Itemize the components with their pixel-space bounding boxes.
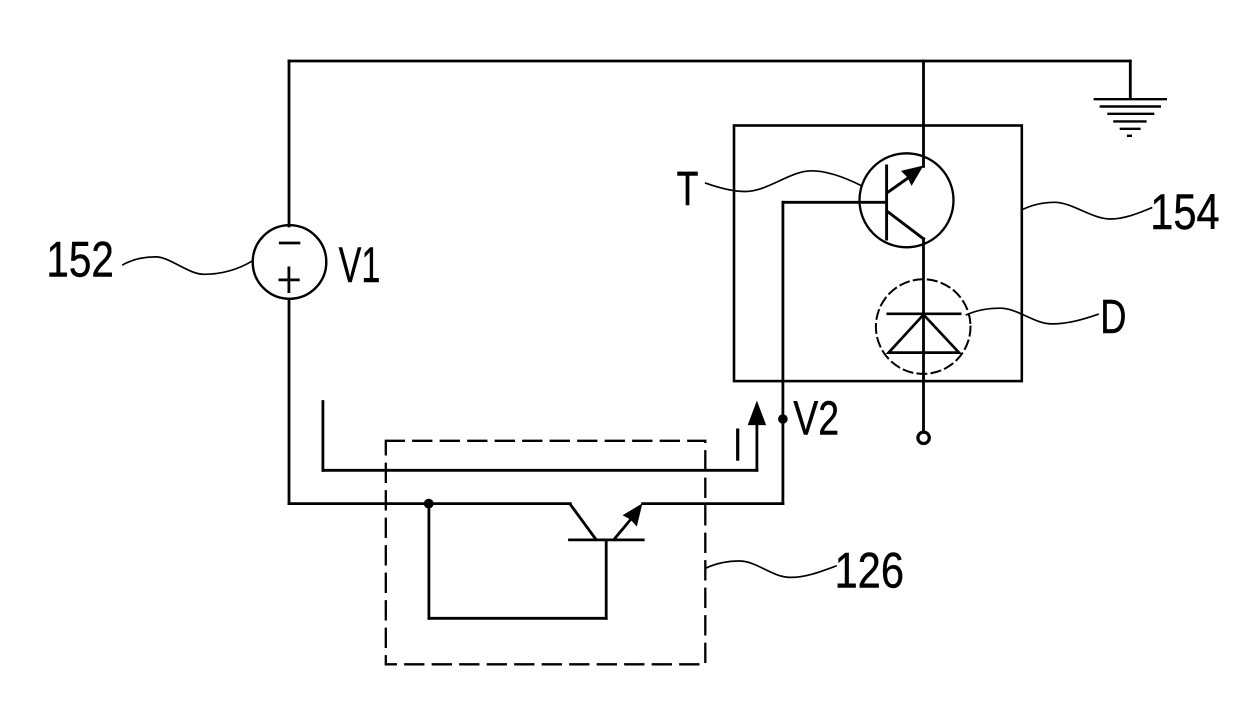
svg-text:T: T [677,163,699,216]
node: junction dot [424,499,434,509]
voltage source V1 [253,225,327,299]
wire: Q base stem [605,540,608,618]
wire: T base lead [783,201,887,204]
wire: V1 bottom lead [288,299,291,504]
leader squiggle T [706,171,861,192]
svg-text:126: 126 [835,542,905,598]
svg-text:154: 154 [1150,184,1219,240]
diode D [876,279,971,374]
wire: T collector through diode to terminal [922,239,925,432]
wire: hook stub [321,402,324,471]
svg-text:V1: V1 [339,237,381,293]
label I [736,429,739,461]
transistor T [860,153,954,247]
wire: loop left vertical [427,504,430,619]
leader squiggle 154 [1023,202,1152,219]
wire: bottom horizontal to Q collector [289,502,570,505]
wire: top rail [289,60,1130,63]
wire: V2 riser [782,202,785,503]
wire: loop bottom [429,617,606,620]
svg-text:D: D [1100,291,1126,344]
dashed box 126 [386,441,706,665]
leader squiggle 152 [123,257,253,274]
leader squiggle 126 [707,561,837,577]
svg-text:V2: V2 [793,392,839,445]
wire: V1 top lead [288,61,291,226]
ground [1094,99,1167,136]
wire: hook horizontal [323,469,757,472]
wire: top rail to T emitter [922,61,925,167]
node: V2 dot [778,414,788,424]
svg-text:152: 152 [46,231,114,287]
wire: Q emitter to V2 riser [643,502,783,505]
terminal [918,432,929,443]
wire: ground lead [1129,61,1132,99]
transistor Q (inside 126) [570,503,644,540]
box 154 [734,126,1022,382]
leader squiggle D [967,308,1099,324]
current arrow I [748,401,766,471]
